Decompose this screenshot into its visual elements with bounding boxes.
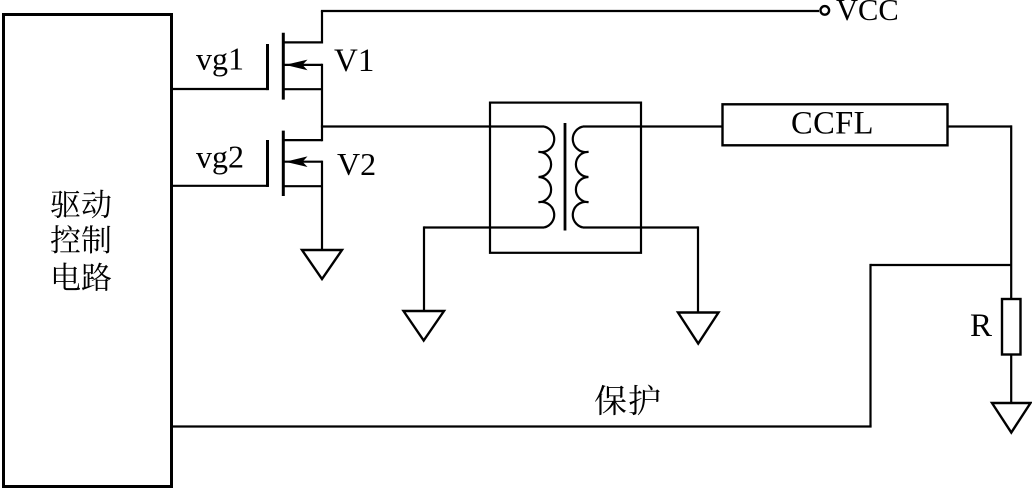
label 控 (control) [51, 225, 80, 253]
resistor R body [1002, 299, 1021, 355]
wire: VCC rail [321, 10, 819, 12]
transistor V1 body lead with arrow [284, 64, 322, 66]
wire: V1 source to V2 drain bus [321, 64, 323, 141]
transformer core line [564, 123, 567, 231]
transistor V2 gate bar [266, 140, 269, 187]
svg-text:vg2: vg2 [196, 139, 244, 175]
label 电 (circuit) [54, 263, 80, 291]
wire: resistor to ground [1010, 355, 1012, 404]
wire: feedback drop [869, 264, 871, 427]
transistor V1 gate bar [266, 44, 269, 90]
wire: sense tap horizontal [871, 264, 1013, 266]
ground: below V2 [302, 250, 342, 279]
label 护 [629, 385, 659, 416]
wire: protection feedback to control box [171, 425, 872, 427]
wire: vg1 gate wire from control box [171, 88, 269, 90]
wire: V2 source to ground [321, 161, 323, 250]
wire: half-bridge node to transformer primary [321, 125, 544, 127]
svg-text:V1: V1 [334, 43, 374, 79]
ground: primary side [404, 311, 445, 341]
wire: vg2 gate wire from control box [171, 185, 269, 187]
transistor V1 source lead [282, 88, 322, 90]
svg-text:VCC: VCC [836, 0, 899, 27]
svg-text:vg1: vg1 [196, 41, 244, 77]
svg-text:CCFL: CCFL [791, 106, 874, 142]
transistor V2 body lead with arrow [284, 161, 322, 163]
transistor V2 source lead [282, 185, 322, 187]
terminal: VCC open circle [821, 6, 830, 15]
transistor V2 drain lead [282, 139, 322, 141]
transistor V1 drain lead [282, 11, 322, 42]
wire: secondary to CCFL [583, 125, 723, 127]
label 动 [82, 190, 111, 219]
label 驱 (drive) [51, 191, 80, 218]
wire: right drop to resistor [1010, 125, 1012, 299]
label 保 (protection) [595, 385, 626, 415]
label 制 [82, 225, 110, 253]
transistor V2 channel bar [282, 131, 285, 196]
transformer secondary winding [573, 127, 589, 228]
wire: secondary return [583, 226, 698, 228]
lamp CCFL box [723, 104, 948, 145]
ground: below resistor [992, 403, 1031, 433]
block: drive control circuit box [4, 15, 172, 487]
wire: primary ground drop [423, 226, 425, 311]
wire: secondary ground drop [697, 226, 699, 312]
transistor V1 channel bar [282, 33, 285, 100]
ground: secondary side [678, 313, 719, 344]
transformer primary winding [539, 127, 555, 228]
transformer T1 box [490, 103, 641, 253]
wire: primary return [424, 226, 544, 228]
svg-text:V2: V2 [337, 146, 376, 182]
svg-text:R: R [970, 308, 992, 344]
wire: CCFL to sense node [948, 125, 1013, 127]
label 路 [82, 263, 111, 291]
